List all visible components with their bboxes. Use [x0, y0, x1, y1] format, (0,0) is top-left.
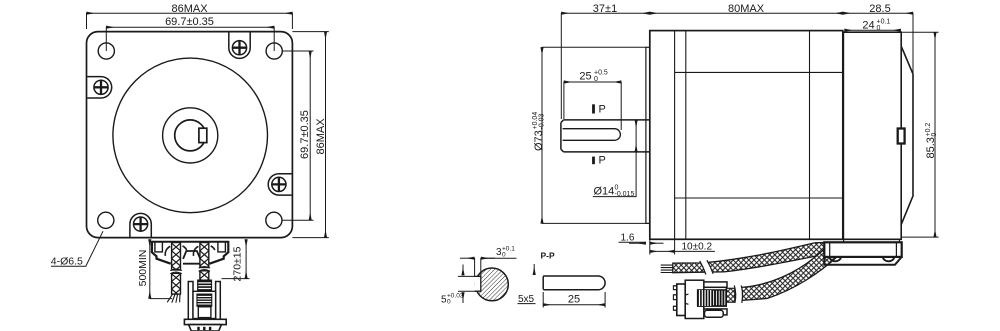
- leader 4-D6.5: [51, 231, 103, 266]
- svg-text:37±1: 37±1: [593, 3, 617, 15]
- svg-text:85.3: 85.3: [925, 137, 937, 158]
- dim 69.7 top: line: [106, 26, 274, 28]
- dim 69.7 top: extension lines: [106, 27, 274, 51]
- key profile 5x5: [543, 276, 605, 290]
- svg-text:-0.015: -0.015: [615, 191, 635, 198]
- cable left front-view: [170, 243, 182, 295]
- svg-text:500MIN: 500MIN: [137, 250, 149, 287]
- dim D14 leader: [593, 152, 636, 197]
- cable upper side-view: [673, 243, 825, 273]
- dim 3 extensions: [475, 258, 481, 277]
- svg-text:28.5: 28.5: [869, 3, 890, 15]
- flange back edge: [674, 31, 676, 240]
- svg-text:69.7±0.35: 69.7±0.35: [165, 16, 214, 28]
- text 500MIN: [137, 250, 149, 287]
- text 270±15: [232, 246, 244, 281]
- cable lower break: [734, 285, 743, 303]
- side body outline: [650, 31, 843, 240]
- dim 24 line: [845, 29, 901, 31]
- dim 500MIN extension: [150, 298, 172, 300]
- svg-text:0: 0: [502, 252, 506, 259]
- dim 3 arrows: [460, 257, 517, 259]
- hole bottom-right: [266, 212, 282, 228]
- svg-text:Ø73: Ø73: [533, 130, 545, 151]
- motor flange outline: [87, 32, 293, 238]
- svg-text:P: P: [599, 155, 606, 167]
- dim 10 extensions: [650, 239, 675, 254]
- dim 270 line: [245, 239, 247, 278]
- cable right front-view: [199, 243, 211, 281]
- cable lower side-view: [741, 247, 839, 301]
- svg-text:0: 0: [877, 25, 881, 32]
- dim 28.5 line: [843, 12, 913, 14]
- dim 69.7 right: line: [309, 51, 311, 220]
- cable bracket front-view: [152, 241, 228, 264]
- rear bottom block: [824, 239, 901, 264]
- dim 37 line: [561, 12, 650, 14]
- svg-text:86MAX: 86MAX: [171, 3, 208, 15]
- connector front-view: [184, 280, 226, 331]
- dim 5 key arrow: [533, 264, 535, 275]
- text D14 tol: [594, 185, 635, 199]
- svg-text:P: P: [599, 104, 606, 116]
- dim 28.5 extension right: [912, 13, 914, 74]
- connector boot side-view: [726, 288, 735, 302]
- svg-text:P-P: P-P: [541, 251, 556, 261]
- svg-text:4-Ø6.5: 4-Ø6.5: [51, 255, 83, 267]
- dim 25 slot: extensions: [564, 82, 621, 130]
- pilot boss side: [646, 47, 650, 223]
- body rear corner line: [809, 31, 811, 240]
- screw bottom: [134, 217, 148, 231]
- dim 86MAX top: extension lines: [87, 13, 293, 29]
- dim 86MAX right: line: [325, 32, 327, 238]
- dim D14 line: [635, 120, 637, 152]
- section P mark top: [592, 104, 595, 113]
- screw tab bottom: [130, 213, 151, 237]
- dim 10 line: [650, 250, 675, 252]
- dim D73: extensions: [542, 47, 650, 223]
- hole top-right: [266, 43, 282, 59]
- wire ends side-view: [661, 265, 673, 272]
- dim 69.7 right: extension lines: [282, 51, 314, 220]
- svg-text:0: 0: [931, 133, 938, 137]
- bearing boss circle: [163, 108, 218, 163]
- rear housing outline: [843, 32, 913, 239]
- text 25 tol: [579, 70, 608, 84]
- body corner tangent bottom: [675, 197, 843, 199]
- svg-text:69.7±0.35: 69.7±0.35: [299, 110, 311, 159]
- screw right: [272, 177, 286, 191]
- svg-text:10±0.2: 10±0.2: [682, 241, 713, 252]
- wire ends front-view: [167, 294, 180, 303]
- keyway front: [199, 128, 207, 142]
- screw tab top: [229, 32, 250, 58]
- dim 80MAX line: [650, 12, 843, 14]
- dim 85.3: line: [934, 32, 936, 237]
- svg-text:80MAX: 80MAX: [728, 3, 765, 15]
- svg-text:1.6: 1.6: [621, 232, 635, 243]
- hole bottom-left: [98, 212, 114, 228]
- dim 25 slot: line: [564, 81, 621, 83]
- svg-text:0: 0: [447, 299, 451, 306]
- svg-text:25: 25: [579, 71, 591, 83]
- section shaft circle hatched: [476, 268, 509, 301]
- flange corner line: [685, 31, 687, 240]
- connector side-view: [673, 280, 727, 318]
- text 69.7 right: [299, 110, 311, 159]
- dim 270 extension: [222, 278, 250, 280]
- shaft side: [561, 120, 650, 152]
- section P mark bottom: [592, 157, 595, 165]
- rear connector tab: [898, 129, 905, 144]
- svg-text:25: 25: [568, 294, 580, 306]
- dim 86MAX right: extension lines: [292, 32, 328, 238]
- underline 5x5: [518, 303, 536, 305]
- body corner tangent top: [675, 71, 843, 73]
- text 86MAX right: [315, 118, 327, 155]
- shaft circle D14: [175, 120, 206, 151]
- screw top: [232, 41, 246, 55]
- dim 25 key: extensions: [543, 292, 605, 308]
- screw tab right: [268, 174, 292, 195]
- dim 500MIN line: [149, 239, 151, 298]
- text 3 tol: [496, 246, 515, 259]
- hole top-left: [98, 43, 114, 59]
- section keyway notch: [475, 276, 481, 291]
- svg-text:-0.03: -0.03: [539, 113, 546, 129]
- dim 37 extension left: [560, 13, 562, 119]
- svg-text:Ø14: Ø14: [594, 186, 615, 198]
- svg-text:86MAX: 86MAX: [315, 118, 327, 155]
- dim 25 key: line: [543, 304, 605, 306]
- cable upper break: [700, 260, 714, 274]
- text 5 tol: [441, 293, 464, 306]
- dim D73: line: [541, 47, 543, 223]
- dim 85.3: extensions: [901, 32, 938, 237]
- dim 1.6 arrows: [619, 242, 664, 243]
- pilot circle D73: [113, 58, 268, 213]
- dim 86MAX top: line: [87, 12, 293, 14]
- dim 5 arrows: [462, 265, 464, 304]
- dim 10 underline: [675, 250, 715, 252]
- svg-text:24: 24: [862, 20, 874, 32]
- svg-text:270±15: 270±15: [232, 246, 244, 281]
- text D73 tol: [532, 112, 546, 151]
- text 85.3 tol: [925, 123, 938, 159]
- screw tab left: [87, 77, 112, 98]
- svg-text:0: 0: [594, 76, 598, 83]
- keyway slot side: [563, 129, 621, 141]
- dim 5 extensions: [458, 276, 476, 291]
- screw left: [94, 80, 108, 94]
- text 24 tol: [862, 19, 890, 33]
